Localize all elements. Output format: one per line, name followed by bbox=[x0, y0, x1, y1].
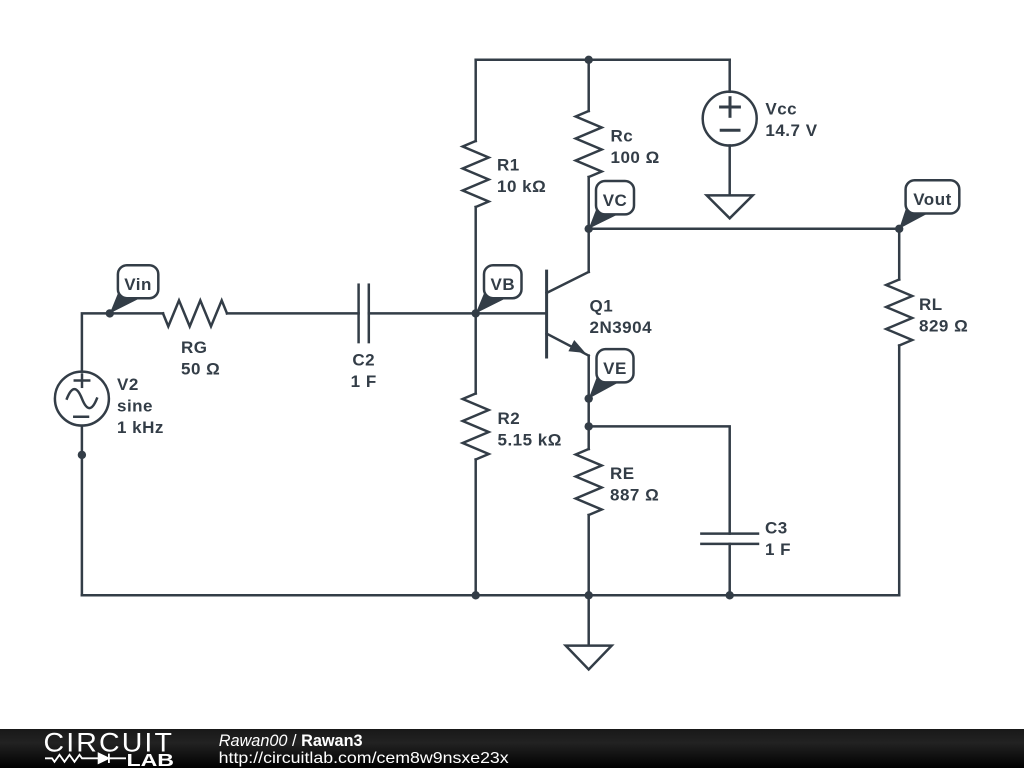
label RG value bbox=[181, 338, 220, 379]
svg-text:Q1: Q1 bbox=[590, 296, 614, 315]
resistor R1 bbox=[463, 141, 489, 207]
wire C2 to Q1 base bbox=[369, 312, 547, 315]
flag Vout bbox=[899, 180, 959, 229]
wire RL bottom lead bbox=[898, 346, 901, 596]
svg-text:100 Ω: 100 Ω bbox=[611, 148, 660, 167]
node VC bbox=[585, 225, 593, 233]
flag VE bbox=[589, 349, 634, 399]
svg-text:887 Ω: 887 Ω bbox=[610, 485, 659, 504]
source Vcc bbox=[703, 92, 757, 146]
svg-text:Vout: Vout bbox=[913, 190, 952, 209]
label V2 value bbox=[117, 375, 164, 437]
ground (under Vcc) bbox=[707, 195, 753, 218]
flag Vin bbox=[110, 265, 159, 313]
transistor Q1 bbox=[547, 271, 589, 357]
svg-text:RE: RE bbox=[610, 464, 635, 483]
label Rc value bbox=[611, 127, 660, 168]
svg-text:VE: VE bbox=[603, 359, 627, 378]
node bottom rail C3 bbox=[726, 591, 734, 599]
svg-text:RL: RL bbox=[919, 295, 943, 314]
label C2 value bbox=[351, 351, 377, 392]
ground (bottom) bbox=[566, 595, 612, 669]
svg-text:VB: VB bbox=[490, 275, 515, 294]
svg-text:VC: VC bbox=[603, 191, 628, 210]
svg-text:http://circuitlab.com/cem8w9ns: http://circuitlab.com/cem8w9nsxe23x bbox=[219, 750, 509, 767]
svg-text:R1: R1 bbox=[497, 156, 520, 175]
svg-text:R2: R2 bbox=[498, 409, 521, 428]
resistor R2 bbox=[463, 394, 489, 460]
svg-text:10 kΩ: 10 kΩ bbox=[497, 177, 546, 196]
node bottom rail ground bbox=[585, 591, 593, 599]
label Q1 value bbox=[590, 296, 653, 337]
node bottom rail R2 bbox=[472, 591, 480, 599]
svg-text:50 Ω: 50 Ω bbox=[181, 360, 220, 379]
label Vcc value bbox=[765, 99, 817, 139]
svg-text:Vcc: Vcc bbox=[765, 99, 797, 118]
svg-text:Rawan00 / Rawan3: Rawan00 / Rawan3 bbox=[219, 732, 363, 750]
wire Vcc to ground bbox=[728, 145, 731, 195]
node top rail junction bbox=[585, 56, 593, 64]
wire emitter branch to C3 bbox=[589, 426, 730, 533]
svg-text:5.15 kΩ: 5.15 kΩ bbox=[498, 430, 562, 449]
wire collector rail bbox=[589, 228, 900, 231]
resistor Rc bbox=[576, 111, 602, 177]
svg-text:14.7 V: 14.7 V bbox=[765, 121, 817, 140]
node emitter branch junction bbox=[585, 422, 593, 430]
wire R1 to R2 (VB column) bbox=[474, 207, 477, 394]
node VB bbox=[472, 309, 480, 317]
wire Vout to RL bbox=[898, 229, 901, 280]
wire collector node to Q1 bbox=[587, 229, 590, 272]
wire R1 top lead bbox=[474, 60, 477, 141]
node Vout bbox=[895, 225, 903, 233]
svg-text:Rc: Rc bbox=[611, 127, 634, 146]
wire Vcc top lead bbox=[728, 60, 731, 92]
svg-text:LAB: LAB bbox=[127, 750, 175, 768]
capacitor C3 bbox=[701, 534, 758, 544]
svg-text:C2: C2 bbox=[352, 351, 375, 370]
resistor RL bbox=[886, 280, 912, 346]
label RE value bbox=[610, 464, 659, 505]
svg-text:2N3904: 2N3904 bbox=[590, 318, 653, 337]
resistor RE bbox=[576, 449, 602, 515]
wire RE bottom lead bbox=[587, 515, 590, 595]
svg-text:1 F: 1 F bbox=[765, 540, 791, 559]
svg-text:V2: V2 bbox=[117, 375, 139, 394]
source V2 bbox=[55, 372, 109, 426]
label RL value bbox=[919, 295, 968, 336]
svg-text:RG: RG bbox=[181, 338, 208, 357]
wire Rc top lead bbox=[587, 60, 590, 111]
wire bottom rail bbox=[82, 594, 899, 597]
CircuitLab logo resistor-diode glyph bbox=[45, 754, 126, 763]
svg-text:1 kHz: 1 kHz bbox=[117, 418, 164, 437]
node VE bbox=[585, 394, 593, 402]
flag VC bbox=[589, 181, 634, 229]
resistor RG bbox=[163, 300, 227, 326]
svg-text:829 Ω: 829 Ω bbox=[919, 317, 968, 336]
wire C3 bottom lead bbox=[728, 544, 731, 595]
svg-text:1 F: 1 F bbox=[351, 372, 377, 391]
wire left input (V2 top to RG) bbox=[82, 313, 163, 371]
capacitor C2 bbox=[359, 285, 369, 342]
svg-text:sine: sine bbox=[117, 396, 153, 415]
label R1 value bbox=[497, 156, 546, 197]
wire top rail bbox=[476, 59, 730, 62]
node Vin bbox=[106, 309, 114, 317]
svg-text:Vin: Vin bbox=[124, 275, 152, 294]
node V2 bottom bbox=[78, 451, 86, 459]
wire V2 bottom to bottom rail bbox=[81, 426, 84, 596]
wire R2 bottom lead bbox=[474, 460, 477, 596]
flag VB bbox=[476, 265, 522, 313]
footer bar bbox=[0, 729, 1024, 768]
svg-text:C3: C3 bbox=[765, 518, 788, 537]
wire RG to C2 bbox=[227, 312, 359, 315]
label C3 value bbox=[765, 518, 791, 559]
wire Rc to collector node bbox=[587, 177, 590, 229]
wire emitter to RE bbox=[587, 356, 590, 449]
label R2 value bbox=[498, 409, 562, 450]
